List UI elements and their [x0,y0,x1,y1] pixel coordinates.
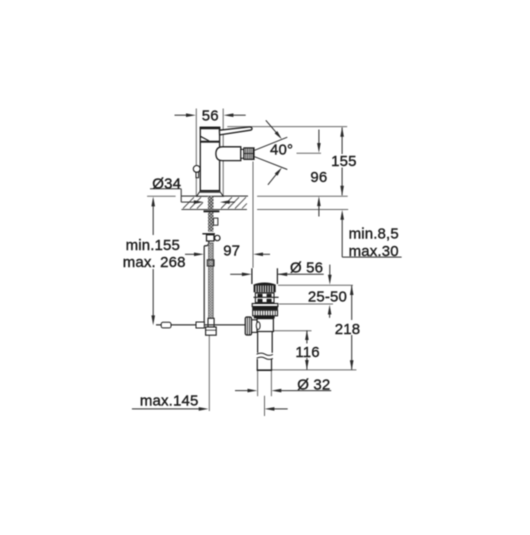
40 degree lower arc arrow [268,168,282,185]
label max. 268 [123,254,186,271]
svg-text:155: 155 [331,153,356,170]
label O 32 [297,376,330,393]
40 degree swivel range lines [255,137,288,169]
waste cage with slots [254,293,279,303]
svg-text:Ø 56: Ø 56 [290,260,323,277]
faucet base flange [197,191,224,197]
flexible supply hose (braided) [207,243,214,327]
svg-text:Ø 32: Ø 32 [297,376,330,393]
label 25-50 [308,289,347,306]
svg-text:max.30: max.30 [349,243,399,260]
extension line: lever top level (155 dim top reference) [227,126,347,128]
label 40 degrees [270,141,293,158]
dimension min.8,5 max.30: arrow and leader [340,210,401,257]
label 155 [331,153,356,170]
extension line: waste knurl top (25-50 and 218 top reference) [278,284,353,286]
label 97 [223,243,240,260]
extension line: drain centerline (max.145 right reference) [264,396,266,416]
svg-text:max. 268: max. 268 [123,254,186,271]
faucet lever handle [219,127,252,135]
svg-text:40°: 40° [270,141,293,158]
svg-text:96: 96 [310,169,327,186]
extension line: counter top level, left tick [147,195,176,197]
dimension 25-50: outside arrows [328,265,332,318]
extension line: counter top level, right run [257,195,348,197]
horizontal pop-up actuating rod [156,322,246,328]
extension line: spray outlet centerline (96 dim top reference) [297,152,322,154]
extension line: tailpipe bottom (218 and 116 bottom reference) [272,369,357,371]
pop-up knob on faucet body [193,166,200,178]
waste knurled lock nut [253,310,278,318]
dimension 116: line and arrows [305,330,309,370]
dimension O56: line and arrows at plug head [230,273,324,277]
dimension max.145: line and arrows [132,407,288,411]
label max.30 [349,243,399,260]
waste knurled collar [254,285,276,292]
extension line: counter bottom level, right run [257,209,348,211]
label 116 [295,344,319,361]
extension line: spray outlet tip down to waste plug (97 right reference) [252,162,254,269]
pop-up waste plug head (O56) [252,268,278,285]
dimension min.155 max.268: line and arrows [151,197,155,326]
40 degree upper arc arrow [266,120,282,139]
svg-text:97: 97 [223,243,240,260]
tailpipe upper section [258,332,273,353]
svg-text:min.155: min.155 [126,237,180,254]
extension line: 56 dim left [195,109,197,197]
dimension 155: line and arrows [340,127,344,196]
faucet body (single-hole bidet mixer) [200,127,221,190]
hose end fitting [206,327,217,335]
waste rubber seal ring [252,307,278,310]
svg-text:max.145: max.145 [140,393,199,410]
svg-text:116: 116 [295,344,319,361]
counter slab hatching [183,197,247,208]
waste body [257,319,273,332]
mounting plate under counter [202,233,215,235]
side tee connector for actuating rod [245,317,260,335]
dimension 96: outside arrows [317,130,321,217]
label min.155 [126,237,180,254]
waste seat flange [252,304,278,307]
extension line: waste body bottom (116 top reference) [273,330,311,332]
label max.145 [140,393,199,410]
tailpipe lower section (O32) [257,359,272,370]
dimension O34: leader and arrows at mounting hole [150,189,235,204]
dimension 218: line and arrows [350,285,354,370]
svg-text:Ø34: Ø34 [152,176,181,193]
svg-text:56: 56 [202,107,219,124]
pop-up rod clamp with knob [207,235,221,241]
counter slab outline with mounting hole [181,189,248,210]
vertical pop-up rod with offset bend [204,241,209,324]
text halo masks [120,154,365,358]
tailpipe break symbol [257,353,273,359]
extension line: tailpipe left edge (O32 left) [257,371,259,396]
label O 56 [290,260,323,277]
threaded mounting shank through counter [204,196,220,232]
extension line: 56 dim right [222,109,224,197]
svg-text:218: 218 [335,321,360,338]
extension line: tailpipe right edge (O32 right) [270,371,272,396]
svg-text:25-50: 25-50 [308,289,347,306]
dimension 97: arrows [185,253,270,257]
extension line: pop-up rod extended (max.145 left reference) [208,335,210,411]
label 56 [202,107,219,124]
label min.8,5 [349,226,399,243]
swivel spray outlet (aerator) [216,147,254,161]
extension line: waste flange (25-50 bottom reference) [279,303,333,305]
dimension 56: line and arrows [175,113,246,117]
dimension O32: line and arrows [235,389,331,393]
label 218 [335,321,360,338]
svg-text:min.8,5: min.8,5 [349,226,399,243]
label 96 [310,169,327,186]
label O34 [152,176,181,193]
